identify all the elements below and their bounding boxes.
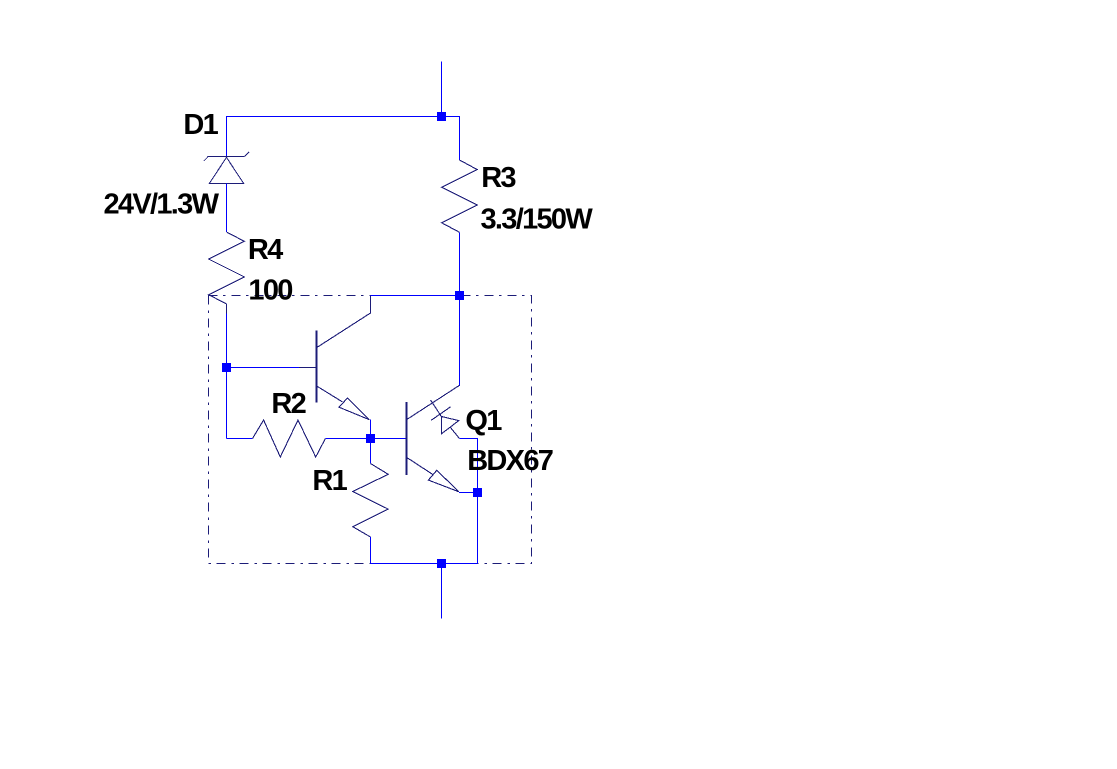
svg-text:R4: R4 [248,234,283,266]
resistor R1 [353,464,388,538]
svg-text:D1: D1 [183,109,218,141]
transistor Q1b emitter [407,457,433,474]
wire R2 right to mid node [325,438,370,440]
wire R2 left lead [227,438,253,440]
diode internal triangle [441,417,458,434]
diode D1 zener [204,152,249,184]
diode internal cathode bar [431,407,451,421]
node top junction [437,112,446,121]
wire R1 bottom lead [370,537,372,564]
wire diode anode to emitter node [459,439,477,493]
wire T1 collector to box node [371,295,460,297]
wire R4 down to left node [226,313,228,438]
node left junction [222,363,231,372]
svg-text:R3: R3 [481,162,516,194]
wire T2 base [371,438,407,440]
dash-dot box (Q1 BDX67 boundary) [209,296,532,564]
wire R3 bottom to box node [459,232,461,295]
transistor Q1b emitter arrow [428,470,459,492]
svg-text:R1: R1 [312,465,347,497]
svg-text:Q1: Q1 [465,405,502,437]
transistor Q1a emitter arrow [339,398,369,420]
transistor Q1a bar [316,331,318,403]
wire R1 top lead [370,439,372,464]
transistor Q1a emitter [317,386,343,402]
node mid junction [366,434,375,443]
node box top junction [455,291,464,300]
wire top stub [441,62,443,117]
transistor Q1b collector [407,385,460,419]
wire T2 collector vertical [459,296,461,386]
resistor R4 bottom pin [226,304,228,313]
wire emitter node down [477,493,479,564]
svg-text:R2: R2 [271,388,305,420]
node bottom junction [437,559,446,568]
wire T1 emitter to mid node [370,420,372,439]
diode internal cathode lead [431,400,442,417]
svg-text:3.3/150W: 3.3/150W [481,203,594,235]
node emitter junction [473,488,482,497]
wire bottom stub [441,564,443,619]
transistor Q1b bar [406,402,408,475]
diode internal anode lead [450,427,459,438]
svg-text:24V/1.3W: 24V/1.3W [104,188,220,220]
svg-text:BDX67: BDX67 [467,445,553,477]
resistor R2 [253,420,326,457]
resistor R4 [209,232,245,304]
transistor Q1a collector [317,296,371,348]
wire T1 base [227,367,300,369]
wire bottom horizontal [371,563,478,565]
wire D1 to R4 [226,184,228,233]
wire T2 emitter to node [459,492,478,494]
svg-text:100: 100 [248,275,292,307]
wire top horizontal D1 to R3 [227,117,460,161]
resistor R3 [442,160,478,232]
transistor Q1a base lead [299,367,317,369]
